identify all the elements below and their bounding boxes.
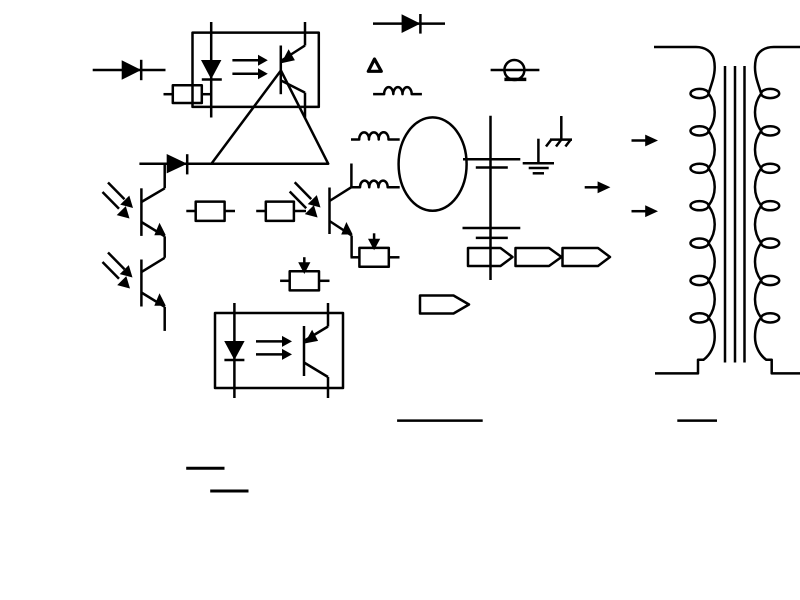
optocoupler U2 LED [224, 303, 244, 398]
net tag P1 [468, 248, 513, 266]
inductor L1 [373, 87, 422, 94]
resistor R1 [164, 85, 212, 103]
capacitor C2 [463, 228, 521, 238]
wire segment W2 [677, 419, 717, 422]
phototransistor Q3 light arrows [290, 182, 321, 217]
phototransistor Q1 [141, 164, 165, 257]
net tag P2 [516, 248, 562, 266]
net tag P3 [563, 248, 611, 266]
wire segment W4 [210, 490, 248, 493]
resistor R2 [186, 202, 235, 221]
phototransistor Q2 [141, 258, 165, 331]
resistor R5 (with arrow) [280, 257, 329, 290]
arrow C [632, 205, 659, 217]
inductor L2 [351, 132, 400, 139]
transformer T1 left winding [654, 47, 715, 373]
diode D2 [139, 154, 211, 174]
optocoupler U1 phototransistor [281, 22, 305, 118]
capacitor C1 [463, 159, 520, 167]
op-amp triangle A1 [211, 71, 328, 164]
wire segment W1 [397, 419, 483, 422]
phototransistor Q1 light arrows [103, 183, 134, 219]
diode D3 [373, 14, 445, 34]
arrow A (to transformer) [632, 135, 659, 147]
optocoupler U2 phototransistor [304, 303, 328, 398]
resistor R3 [256, 202, 306, 221]
resistor R4 (with arrow) [351, 233, 400, 266]
optocoupler U2 box [215, 313, 343, 388]
lamp B1 [491, 60, 540, 80]
earth ground [523, 139, 554, 174]
transformer T1 core [725, 66, 745, 363]
optocoupler U1 light arrows [232, 55, 267, 80]
optocoupler U1 LED [201, 22, 222, 118]
chassis ground [546, 116, 572, 147]
arrow B [585, 181, 611, 193]
wire segment W3 [186, 467, 224, 470]
optocoupler U1 box [193, 33, 319, 107]
net tag P4 [420, 296, 469, 314]
motor/ellipse M1 [399, 117, 467, 210]
phototransistor Q2 light arrows [103, 253, 133, 289]
diode D1 [93, 60, 166, 80]
inductor L3 [351, 181, 399, 188]
phototransistor Q3 [330, 164, 353, 258]
transformer T1 right winding [755, 47, 800, 373]
wire capacitor lead [489, 116, 492, 280]
delta marker [368, 59, 381, 71]
optocoupler U2 light arrows [256, 336, 292, 360]
